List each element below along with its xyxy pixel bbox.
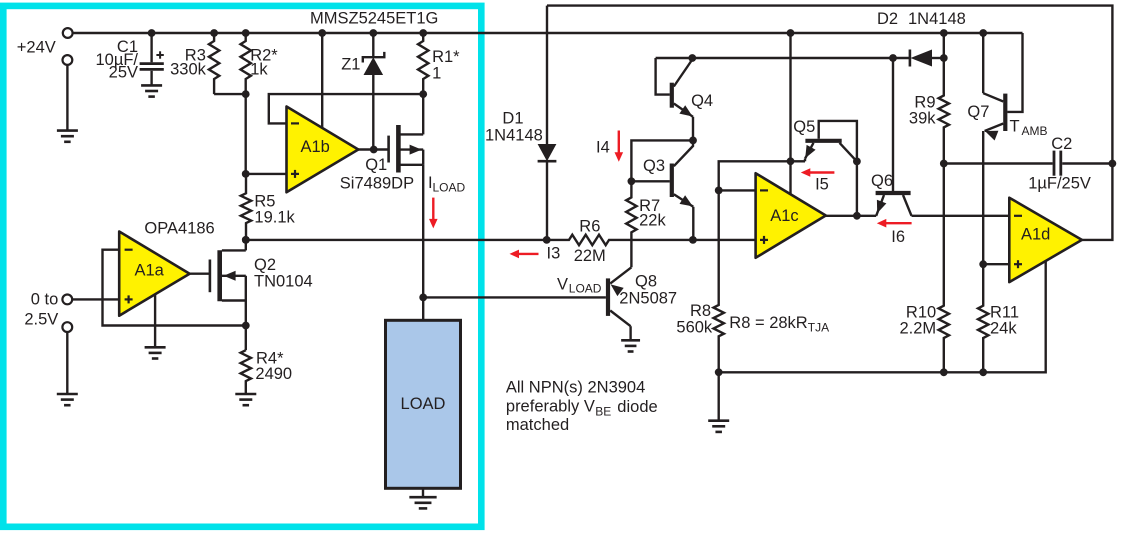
junction Q2 source node <box>242 322 250 330</box>
transistor Q7 base bar <box>1003 94 1007 131</box>
svg-text:19.1k: 19.1k <box>254 209 295 227</box>
wire A1c V+ supply pin <box>789 161 791 194</box>
svg-text:25V: 25V <box>109 64 138 82</box>
terminal 0-2.5V return <box>62 322 72 332</box>
Q2 body lead <box>222 299 246 301</box>
svg-text:Q7: Q7 <box>967 103 989 121</box>
A1b plus sign <box>291 173 299 175</box>
terminal 0-2.5V input <box>62 295 72 305</box>
svg-text:D2: D2 <box>877 10 898 28</box>
resistor R11 <box>978 264 988 372</box>
wire D2 anode to rail <box>943 33 945 58</box>
wire A1a minus feedback <box>103 250 246 326</box>
svg-text:39k: 39k <box>909 110 936 128</box>
svg-text:1N4148: 1N4148 <box>908 10 966 28</box>
Q7 emitter with arrow <box>985 124 1004 132</box>
svg-text:diode: diode <box>617 398 657 416</box>
junction R11 top A1d plus node <box>979 260 987 268</box>
Q1 body lead <box>400 164 423 166</box>
svg-text:A1c: A1c <box>770 207 798 225</box>
svg-text:I6: I6 <box>891 228 905 246</box>
junction A1c output node <box>853 212 861 220</box>
svg-text:330k: 330k <box>170 61 207 79</box>
Q7 collector from rail <box>982 33 984 93</box>
Q2 drain lead <box>222 249 246 251</box>
transistor Q2 gate bar <box>209 260 212 293</box>
Q3 collector <box>674 140 693 166</box>
junction Q6 base on mirror line <box>889 54 897 62</box>
A1d plus sign <box>1014 263 1022 265</box>
svg-text:I3: I3 <box>547 245 561 263</box>
svg-text:MMSZ5245ET1G: MMSZ5245ET1G <box>310 10 438 28</box>
wire R6 node to A1c plus <box>693 239 756 241</box>
svg-text:2N5087: 2N5087 <box>619 290 677 308</box>
terminal +24V top <box>63 28 73 38</box>
svg-text:T: T <box>1010 117 1020 135</box>
wire +24V return to ground <box>66 65 68 131</box>
junction Q5 collector node <box>853 158 861 166</box>
junction R5 bottom node <box>242 236 250 244</box>
ground below A1a <box>145 346 166 349</box>
ground below +24V return <box>57 129 78 132</box>
svg-text:+24V: +24V <box>17 39 56 57</box>
junction R6 right node Q3 emitter <box>689 236 697 244</box>
current arrow ILOAD <box>432 198 434 220</box>
A1b minus sign <box>291 122 299 124</box>
terminal +24V return <box>63 55 73 65</box>
wire R8 ground stub <box>718 372 720 420</box>
svg-text:Q8: Q8 <box>635 273 657 291</box>
A1a plus sign <box>125 298 133 300</box>
svg-text:1k: 1k <box>250 61 268 79</box>
svg-text:C2: C2 <box>1051 135 1072 153</box>
diode D2 <box>909 50 912 67</box>
wire A1b minus feedback to R1 bottom <box>269 94 423 123</box>
svg-text:A1a: A1a <box>135 262 165 280</box>
current arrow I4 <box>618 131 620 153</box>
resistor R1* <box>418 33 428 94</box>
svg-text:R11: R11 <box>990 303 1019 321</box>
Q3 base lead <box>631 180 669 182</box>
svg-text:Si7489DP: Si7489DP <box>340 174 414 192</box>
resistor R6 <box>547 235 693 245</box>
svg-text:Q2: Q2 <box>254 256 276 274</box>
wire current mirror line <box>656 57 910 59</box>
wire A1c minus loop up <box>719 161 791 190</box>
junction Z1 top <box>369 29 377 37</box>
svg-text:TN0104: TN0104 <box>254 272 313 290</box>
wire Q1 source to LOAD <box>422 165 424 320</box>
Q5 emitter with arrow <box>805 143 814 159</box>
resistor R3 <box>209 33 219 94</box>
transistor Q6 base bar <box>876 191 911 195</box>
wire A1a output to Q2 gate <box>190 273 210 275</box>
wire A1c minus input <box>719 189 756 191</box>
wire A1d output feedback loop <box>547 6 1112 240</box>
junction R10 bottom <box>940 368 948 376</box>
Q1 source lead with arrow <box>400 148 423 150</box>
transistor Q1 channel bar <box>396 125 401 173</box>
resistor R10 <box>939 164 949 373</box>
svg-text:1N4148: 1N4148 <box>485 127 543 145</box>
junction R2 top <box>242 29 250 37</box>
transistor Q1 gate bar <box>387 136 390 163</box>
svg-text:Q6: Q6 <box>871 172 893 190</box>
junction R8 bottom <box>715 368 723 376</box>
Q8 emitter from R7 with arrow <box>610 267 631 283</box>
current arrow I6 <box>886 222 912 224</box>
wire input to A1a plus <box>72 298 119 300</box>
svg-text:V: V <box>557 276 568 294</box>
svg-text:1: 1 <box>432 65 441 83</box>
svg-text:22M: 22M <box>574 247 606 265</box>
wire Q6 collector to A1d minus <box>912 215 1010 217</box>
Q7 base loop to rail end <box>1007 33 1022 112</box>
svg-text:R8 = 28kR: R8 = 28kR <box>729 314 807 332</box>
junction rail tap for A1c <box>787 29 795 37</box>
svg-text:A1b: A1b <box>301 138 330 156</box>
Q1 drain lead <box>400 133 423 135</box>
current arrow I5 <box>810 171 835 173</box>
Q5 base loop <box>819 121 857 161</box>
Q2 source lead with arrow <box>222 275 246 277</box>
svg-text:Q1: Q1 <box>365 156 387 174</box>
svg-text:LOAD: LOAD <box>569 282 602 296</box>
wire A1b V+ supply pin <box>321 33 323 128</box>
A1d minus sign <box>1014 215 1022 217</box>
svg-text:560k: 560k <box>676 319 713 337</box>
svg-text:A1d: A1d <box>1021 226 1050 244</box>
wire Q4 emitter to Q3 base <box>631 140 693 181</box>
Q8 collector to ground <box>610 311 630 327</box>
op-amp A1c <box>756 173 826 258</box>
wire Q5 collector to A1c output <box>856 161 858 215</box>
junction Q4 emitter node <box>689 137 697 145</box>
svg-text:22k: 22k <box>639 211 666 229</box>
capacitor C1 <box>150 33 152 62</box>
svg-text:R6: R6 <box>579 218 600 236</box>
svg-text:24k: 24k <box>990 320 1017 338</box>
resistor R9 <box>939 58 949 164</box>
junction D1 cathode on sense line <box>543 236 551 244</box>
junction Q4 collector on mirror line <box>688 54 696 62</box>
svg-text:Z1: Z1 <box>341 56 360 74</box>
LOAD block <box>386 320 461 488</box>
svg-text:OPA4186: OPA4186 <box>144 220 214 238</box>
diode D1 <box>546 6 548 144</box>
svg-text:LOAD: LOAD <box>401 395 446 413</box>
svg-text:I5: I5 <box>815 175 829 193</box>
wire Q2 source to R4 <box>245 301 247 351</box>
resistor R5 <box>241 174 251 240</box>
transistor Q8 base bar <box>606 278 610 316</box>
svg-text:TJA: TJA <box>808 321 829 335</box>
wire LOAD to ground <box>422 488 424 497</box>
transistor Q4 base bar <box>670 83 674 108</box>
junction Q2 drain node <box>242 236 250 244</box>
junction Q3 base node <box>628 177 636 185</box>
current arrow I3 <box>519 253 539 255</box>
resistor R8 <box>714 190 724 372</box>
junction R1 top <box>419 29 427 37</box>
junction D2 anode node <box>940 54 948 62</box>
svg-text:LOAD: LOAD <box>433 181 466 195</box>
wire A1d plus input <box>983 263 1009 265</box>
junction VLOAD node <box>419 294 427 302</box>
ground below 0-2.5V return <box>57 393 78 396</box>
junction R3 top <box>210 29 218 37</box>
Q4 collector <box>674 60 693 87</box>
ground below R4 <box>235 393 256 396</box>
svg-text:All NPN(s) 2N3904: All NPN(s) 2N3904 <box>506 379 645 397</box>
junction R9 bottom node <box>940 160 948 168</box>
Q5 collector <box>840 143 857 161</box>
wire A1b plus input <box>246 173 287 175</box>
svg-text:2.2M: 2.2M <box>900 320 937 338</box>
svg-text:R1*: R1* <box>432 48 460 66</box>
transistor Q5 base bar <box>805 139 841 143</box>
svg-text:2.5V: 2.5V <box>24 311 58 329</box>
Q3 emitter with arrow <box>674 194 694 207</box>
junction Z1 bottom on A1b output <box>370 146 378 154</box>
wire A1c output <box>826 215 876 217</box>
resistor R4* <box>241 350 251 394</box>
ground below R8 <box>708 419 729 422</box>
junction D2 on rail <box>940 29 948 37</box>
A1c plus sign <box>760 239 768 241</box>
junction C2 right on A1d output <box>1109 160 1117 168</box>
junction A1b plus input node <box>242 170 250 178</box>
Q6 base wire to mirror line <box>892 58 894 191</box>
ground below LOAD <box>409 496 436 499</box>
resistor R7 <box>626 181 636 267</box>
wire R2 bottom to R5 top <box>244 94 246 174</box>
wire 0-2.5V return to ground <box>66 332 68 394</box>
wire sense line A1a-Q2 node to R6 <box>246 239 547 241</box>
transistor Q3 base bar <box>670 164 674 198</box>
junction Q5 emitter node <box>787 157 795 165</box>
junction A1b supply on rail <box>318 29 326 37</box>
C1 plus polarity mark <box>156 54 163 56</box>
wire A1b output to Q1 gate <box>358 148 388 150</box>
wire bottom bias rail <box>719 261 1046 372</box>
op-amp A1b <box>287 107 359 193</box>
wire rail to Q5 emitter node <box>789 33 791 161</box>
svg-text:Q3: Q3 <box>643 157 665 175</box>
resistor R2* <box>241 33 251 94</box>
wire VLOAD to Q8 base <box>423 296 606 298</box>
ground below Q8 <box>621 339 640 342</box>
svg-text:2490: 2490 <box>255 365 292 383</box>
wire Q7 emitter to A1d plus <box>982 131 984 264</box>
junction R2 bottom node <box>242 90 250 98</box>
svg-text:R8: R8 <box>690 302 711 320</box>
A1a minus sign <box>125 249 133 251</box>
capacitor C2 <box>944 162 1053 164</box>
Q6 emitter with arrow <box>876 195 884 216</box>
svg-text:BE: BE <box>595 404 611 418</box>
Q4 emitter with arrow <box>674 104 693 117</box>
svg-text:R10: R10 <box>906 303 936 321</box>
svg-text:Q4: Q4 <box>691 92 713 110</box>
cyan highlight border box <box>3 6 481 527</box>
wire +24V rail <box>73 32 1023 34</box>
op-amp A1a <box>119 232 189 316</box>
svg-text:preferably V: preferably V <box>506 397 595 415</box>
svg-text:AMB: AMB <box>1022 124 1048 138</box>
svg-text:Q5: Q5 <box>793 118 815 136</box>
A1c minus sign <box>760 189 768 191</box>
junction R11 bottom <box>979 368 987 376</box>
zener diode Z1 <box>372 33 374 57</box>
svg-text:matched: matched <box>506 416 569 434</box>
Q4 base loop to collector <box>656 58 670 95</box>
Q6 collector <box>903 195 912 216</box>
svg-text:1µF/25V: 1µF/25V <box>1028 174 1091 192</box>
junction A1c minus node <box>715 187 723 195</box>
wire A1a ground pin <box>154 294 156 347</box>
svg-text:D1: D1 <box>502 110 523 128</box>
transistor Q2 channel bar <box>217 250 222 301</box>
junction Q7 collector on rail <box>979 29 987 37</box>
junction R1 bottom Kelvin node <box>419 90 427 98</box>
svg-text:I4: I4 <box>596 139 610 157</box>
junction C1 top <box>148 29 156 37</box>
svg-text:0 to: 0 to <box>31 290 59 308</box>
wire Q5 emitter stub <box>791 160 806 162</box>
op-amp A1d <box>1009 198 1082 282</box>
ground below C1 <box>141 84 162 87</box>
